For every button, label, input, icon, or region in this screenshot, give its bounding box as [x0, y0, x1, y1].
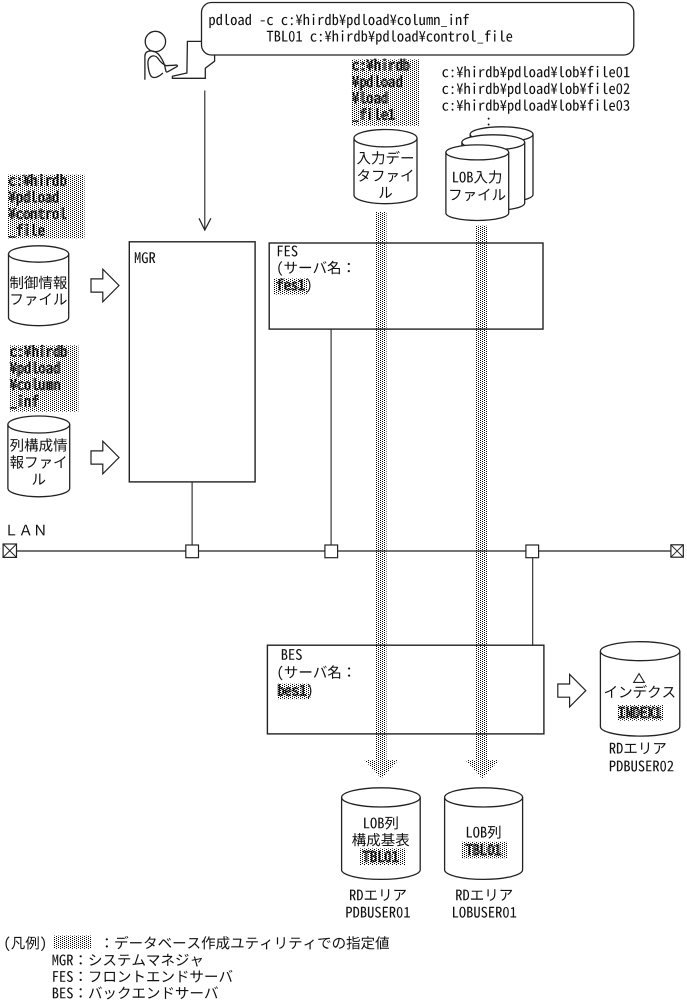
cylinder LOB input back — [470, 134, 533, 202]
speech bubble text line 2 — [267, 30, 512, 44]
hatched label column_inf — [9, 345, 78, 411]
lob file list — [443, 66, 630, 126]
cylinder LOB column — [445, 797, 523, 879]
speech bubble (pdload command) — [202, 3, 634, 56]
LAN line — [17, 550, 671, 552]
BES box — [267, 645, 544, 734]
control info label — [10, 276, 67, 306]
hatched arrow input data to table — [364, 212, 398, 779]
FES labels — [274, 246, 350, 295]
LAN tap MGR — [186, 545, 199, 558]
load_file1 text — [351, 59, 420, 126]
FES box — [269, 243, 543, 329]
control_file text — [8, 174, 85, 238]
block arrow column to MGR — [91, 441, 119, 474]
cylinder control info file — [9, 254, 69, 326]
input data cylinder label — [357, 151, 413, 198]
LOB column base labels — [352, 816, 409, 865]
column_inf text — [9, 345, 78, 411]
cylinder input data file — [354, 138, 417, 204]
index labels — [605, 685, 675, 721]
index triangle — [634, 674, 645, 683]
LOB column labels — [461, 826, 507, 859]
LAN tap BES — [526, 545, 539, 558]
speech bubble text line 1 — [209, 14, 469, 28]
legend — [6, 936, 390, 1000]
hatched arrow LOB input to LOB column — [465, 226, 499, 779]
person body — [145, 51, 178, 80]
cylinder LOB input middle — [462, 142, 525, 210]
BES labels — [277, 649, 350, 699]
LAN tap FES — [325, 545, 338, 558]
cylinder LOB input front — [446, 152, 509, 220]
RD area LOBUSER01 caption — [453, 889, 516, 917]
wire MGR to LAN — [191, 482, 193, 546]
wire LAN to BES — [532, 557, 534, 645]
hatched label load_file1 — [351, 60, 420, 126]
MGR label — [135, 252, 156, 263]
LAN terminator right — [671, 545, 683, 557]
LOB input cylinder label — [450, 170, 505, 201]
LAN label — [8, 525, 44, 536]
wire FES to LAN — [330, 329, 332, 546]
LAN terminator left — [3, 544, 16, 557]
terminal and bubble tail — [172, 41, 214, 78]
index RD area caption — [610, 743, 674, 772]
cylinder column info file — [8, 425, 70, 497]
cylinder LOB column base table — [342, 797, 421, 879]
arrow person to MGR — [199, 91, 211, 231]
person head — [145, 31, 165, 51]
column info label — [10, 438, 67, 485]
block arrow BES to index — [558, 674, 586, 707]
cylinder index RD area — [600, 651, 679, 736]
MGR box — [129, 242, 255, 482]
hatched label control_file — [8, 175, 85, 239]
block arrow control to MGR — [91, 269, 119, 302]
RD area PDBUSER01 caption — [346, 889, 410, 917]
